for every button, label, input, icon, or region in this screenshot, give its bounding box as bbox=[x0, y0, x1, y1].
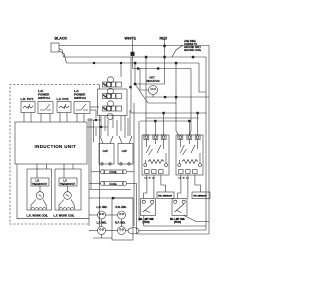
wire below fuses bbox=[89, 189, 131, 191]
lamp L.R. IND bbox=[98, 211, 106, 219]
switch L.F. power switch box bbox=[74, 102, 90, 114]
limit switch TCO box R.R. bbox=[141, 199, 156, 216]
fuse F2 bbox=[100, 181, 126, 186]
wire drop x131 bbox=[130, 57, 132, 110]
junction x113 y198 bbox=[112, 197, 114, 199]
wire x139 bbox=[138, 121, 140, 222]
wires induction to thermostats bbox=[36, 164, 38, 178]
wire bus x199 bbox=[199, 63, 206, 92]
svg-text:L.F.: L.F. bbox=[64, 181, 68, 183]
thermostat assembly left box bbox=[27, 169, 52, 210]
terminal 2 bbox=[153, 135, 158, 140]
svg-text:L.R. POT.: L.R. POT. bbox=[21, 97, 34, 101]
junction y63 marks bbox=[93, 62, 95, 64]
wire h y97 bbox=[146, 96, 209, 98]
wire h y103 bbox=[148, 102, 176, 104]
connector circle bottom bbox=[107, 114, 113, 120]
potentiometer L.R. POT box bbox=[21, 102, 35, 113]
svg-text:L.R. WORK COIL: L.R. WORK COIL bbox=[27, 214, 49, 218]
wire fuse2 bbox=[89, 182, 100, 184]
junction y68.5 marks bbox=[137, 68, 139, 70]
wire bus x146 bbox=[145, 57, 147, 135]
wire right bus x206 bbox=[205, 57, 207, 230]
junction x146 bbox=[145, 56, 147, 58]
wire fuse1 bbox=[91, 171, 100, 173]
wire L2 bus y63 bbox=[59, 51, 199, 63]
lamp R.R. IND bbox=[118, 211, 126, 219]
svg-text:R.R. IND.: R.R. IND. bbox=[116, 205, 127, 209]
svg-text:(TCO): (TCO) bbox=[174, 221, 181, 224]
wire L1 top bus y46 bbox=[59, 45, 209, 47]
junction y57 bbox=[192, 56, 194, 58]
wire oval loop bbox=[128, 228, 139, 234]
svg-text:FUSE: FUSE bbox=[110, 182, 117, 186]
junction x131 bbox=[130, 86, 132, 88]
wire connector column x99 bbox=[99, 85, 101, 90]
svg-text:LINE WIRE: LINE WIRE bbox=[184, 41, 196, 43]
wire lamp left bbox=[140, 69, 149, 91]
capacitor box left bbox=[99, 144, 114, 165]
connector cluster row 3 bbox=[103, 101, 122, 111]
induction unit bbox=[15, 122, 87, 164]
svg-text:BLACK: BLACK bbox=[55, 37, 68, 41]
work coil L.F. bbox=[59, 208, 74, 210]
wire drop x121 to connector bbox=[120, 63, 122, 77]
side terminals bbox=[178, 164, 181, 167]
junction y97 b bbox=[175, 96, 177, 98]
wire RED drop bbox=[164, 39, 166, 85]
thermostat L.R. bbox=[36, 192, 44, 200]
terminal 2 bbox=[187, 135, 192, 140]
label box L.F. thermostat bbox=[59, 178, 77, 186]
junction y97 a bbox=[164, 96, 166, 98]
terminal 1 bbox=[178, 135, 183, 140]
wire TCO returns bbox=[144, 216, 206, 227]
wire bus x89 bbox=[88, 118, 90, 226]
wire bus x93.5 bbox=[93, 120, 95, 142]
wire x136.5 bbox=[136, 183, 138, 234]
connector cluster row 2 bbox=[103, 88, 122, 98]
sensor label box R.F. bbox=[192, 192, 210, 199]
svg-text:L.F. POT.: L.F. POT. bbox=[57, 97, 70, 101]
terminal block BLACK bbox=[51, 43, 59, 52]
svg-text:RR. SENSOR: RR. SENSOR bbox=[158, 196, 172, 198]
wires between lamps bbox=[106, 214, 118, 216]
label box L.R. thermostat bbox=[31, 178, 49, 186]
hot indicator lamp bbox=[149, 86, 158, 95]
svg-text:R.F. IND.: R.F. IND. bbox=[115, 221, 126, 225]
wire bottom bus y234 bbox=[137, 233, 210, 235]
junction white connector bbox=[131, 52, 134, 56]
wire right bus x209 bbox=[208, 46, 210, 235]
wire under lamps bbox=[93, 237, 112, 239]
resistor zigzag bbox=[148, 160, 164, 164]
cap feed stubs bbox=[95, 128, 97, 136]
wire left return bbox=[17, 164, 89, 219]
wire jogs induction to cap area bbox=[87, 119, 101, 121]
junction RED top bus bbox=[164, 45, 166, 47]
wire neutral bus y57 bbox=[59, 49, 206, 58]
svg-text:GROUND ONLY: GROUND ONLY bbox=[184, 47, 201, 49]
svg-text:THERMOSTAT: THERMOSTAT bbox=[32, 183, 48, 186]
side terminals bbox=[144, 164, 147, 167]
terminal 3 bbox=[161, 135, 166, 140]
wire bus y68.5 bbox=[133, 68, 192, 70]
fuse F1 bbox=[100, 170, 126, 175]
surface control box R.F. bbox=[176, 135, 203, 175]
resistor zigzag bbox=[182, 160, 198, 164]
surface control box R.R. bbox=[142, 135, 169, 175]
svg-text:AROUND CASE: AROUND CASE bbox=[184, 49, 201, 52]
svg-text:INDICATOR: INDICATOR bbox=[146, 80, 160, 83]
svg-text:THERMOSTAT: THERMOSTAT bbox=[60, 183, 76, 186]
svg-text:SWITCH: SWITCH bbox=[38, 96, 50, 100]
sensor label box R.R. bbox=[157, 192, 174, 199]
terminal 3 bbox=[195, 135, 200, 140]
wires control to limit switches bbox=[144, 175, 147, 199]
thermostat L.F. bbox=[64, 192, 72, 200]
wire hot indicator diagonal bbox=[135, 84, 148, 103]
svg-text:WHITE: WHITE bbox=[125, 37, 137, 41]
connector cluster row 1 bbox=[103, 77, 122, 87]
switch L.R. power switch box bbox=[38, 102, 53, 114]
connector enclosure bbox=[98, 89, 128, 116]
potentiometer L.F. POT box bbox=[57, 102, 71, 113]
switch contacts bbox=[179, 140, 181, 148]
wire panel to connector rows bbox=[90, 106, 99, 108]
svg-text:INDUCTION UNIT: INDUCTION UNIT bbox=[35, 144, 77, 149]
wire y84 link bbox=[135, 83, 165, 85]
svg-text:SWITCH: SWITCH bbox=[74, 96, 86, 100]
svg-text:L.F. WORK COIL: L.F. WORK COIL bbox=[54, 214, 75, 218]
wire feeds into control boxes bbox=[131, 112, 206, 114]
lamp right column box bbox=[112, 198, 133, 240]
svg-text:CAP: CAP bbox=[103, 149, 109, 153]
svg-text:CAP: CAP bbox=[122, 149, 128, 153]
svg-text:RED: RED bbox=[160, 37, 168, 41]
wire x135 drop bbox=[134, 63, 136, 84]
limit switch TCO box R.F. bbox=[172, 199, 187, 216]
thermostat assembly right box bbox=[55, 169, 81, 210]
svg-text:RF. SENSOR: RF. SENSOR bbox=[194, 196, 208, 198]
wire WHITE drop x132.5 bbox=[132, 40, 134, 69]
work coil L.R. bbox=[31, 208, 46, 210]
svg-text:L.R. IND.: L.R. IND. bbox=[97, 205, 108, 209]
capacitor box right bbox=[118, 144, 133, 165]
terminal 1 bbox=[144, 135, 149, 140]
bottom terminal strip bbox=[179, 170, 183, 174]
note leader line bbox=[172, 45, 183, 57]
wire bus x91 bbox=[90, 118, 92, 189]
control panel dashed enclosure bbox=[10, 85, 99, 225]
switch contacts bbox=[145, 140, 147, 148]
wire bus x176 bbox=[176, 63, 179, 135]
lamp L.F. IND bbox=[98, 227, 106, 235]
bottom terminal strip bbox=[145, 170, 149, 174]
wire x134 bbox=[133, 103, 135, 226]
svg-text:L.R.: L.R. bbox=[36, 181, 41, 183]
lamp R.F. IND bbox=[118, 227, 126, 235]
svg-text:FUSE: FUSE bbox=[110, 170, 117, 174]
wire lamp bottom bbox=[152, 95, 154, 98]
wire bus x191 bbox=[190, 69, 192, 136]
lamp group top wire bbox=[89, 197, 133, 199]
junction diag bbox=[134, 83, 136, 85]
wires pots to induction unit bbox=[23, 113, 25, 123]
